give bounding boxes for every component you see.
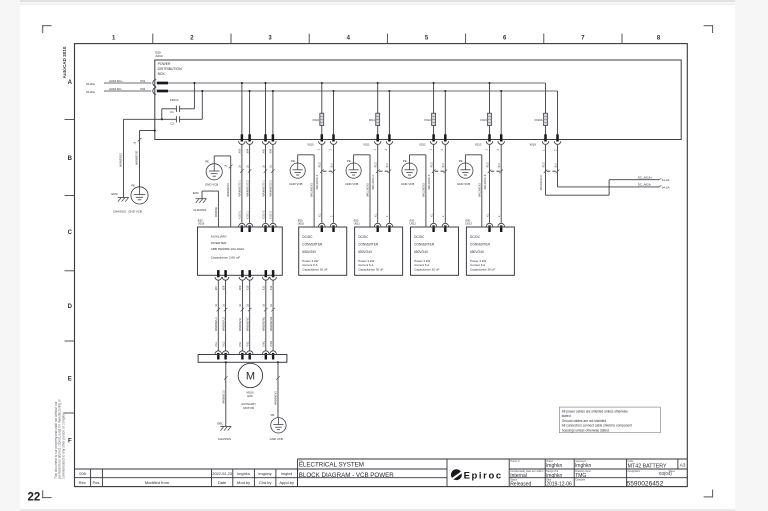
svg-text:D: D <box>68 304 73 310</box>
svg-text:16: 16 <box>222 303 225 306</box>
svg-text:WA13/8GND: WA13/8GND <box>478 183 481 197</box>
svg-text:650V/24V: 650V/24V <box>470 250 485 254</box>
svg-text:F: F <box>68 439 72 445</box>
svg-text:16: 16 <box>239 165 242 168</box>
svg-text:EMC: EMC <box>193 191 199 195</box>
svg-text:F016A: F016A <box>534 118 542 122</box>
svg-text:housings unless otherwise stat: housings unless otherwise stated. <box>562 428 610 432</box>
svg-text:X:W2: X:W2 <box>270 340 273 347</box>
svg-text:A010 DC-: A010 DC- <box>109 87 122 91</box>
svg-text:04-1/A: 04-1/A <box>662 178 670 182</box>
svg-text:Current 6 A: Current 6 A <box>302 263 317 267</box>
svg-text:Released: Released <box>510 482 531 488</box>
svg-text:WA12/8GND: WA12/8GND <box>422 183 425 197</box>
svg-text:X011: X011 <box>363 142 370 146</box>
svg-text:CONVERTER: CONVERTER <box>414 242 435 246</box>
svg-text:WA13/8/DC-6: WA13/8/DC-6 <box>484 174 487 189</box>
svg-text:DC/DC: DC/DC <box>302 235 313 239</box>
svg-text:CHASSIS: CHASSIS <box>218 437 231 441</box>
svg-text:CONVERTER: CONVERTER <box>302 242 323 246</box>
svg-text:X01: X01 <box>140 79 146 83</box>
svg-text:WA06/8E/DC-1: WA06/8E/DC-1 <box>262 180 265 197</box>
svg-text:AUXILIARY: AUXILIARY <box>211 235 227 239</box>
svg-text:Power 4 kW: Power 4 kW <box>358 259 374 263</box>
svg-text:Transf. fr.: Transf. fr. <box>510 460 520 463</box>
svg-text:X03: X03 <box>238 148 242 153</box>
svg-text:DC/DC: DC/DC <box>358 235 369 239</box>
svg-text:5590026452: 5590026452 <box>627 480 664 487</box>
svg-text:X11: X11 <box>262 285 266 290</box>
svg-text:WA08/8E/W1: WA08/8E/W1 <box>263 316 266 331</box>
svg-text:WA08/8E/1E: WA08/8E/1E <box>222 390 225 404</box>
svg-text:DC_A016-: DC_A016- <box>638 183 652 187</box>
svg-text:communicated to any other pers: communicated to any other person or comp… <box>62 412 66 479</box>
svg-text:CONVERTER: CONVERTER <box>358 242 379 246</box>
svg-text:ELECTRICAL SYSTEM: ELECTRICAL SYSTEM <box>299 462 364 469</box>
svg-text:16: 16 <box>262 165 265 168</box>
svg-text:2: 2 <box>442 215 445 217</box>
svg-text:lmghkn: lmghkn <box>237 471 250 476</box>
svg-text:X010: X010 <box>307 142 314 146</box>
svg-text:04-1/A: 04-1/A <box>662 185 670 189</box>
svg-text:U016: U016 <box>198 222 205 226</box>
svg-text:16: 16 <box>215 303 218 306</box>
svg-text:E50: E50 <box>248 394 253 398</box>
svg-text:Current 6 A: Current 6 A <box>470 263 485 267</box>
svg-text:22: 22 <box>28 492 41 504</box>
svg-text:X:V1: X:V1 <box>239 341 242 347</box>
svg-text:X08: X08 <box>221 285 225 290</box>
svg-text:lmghkn: lmghkn <box>546 463 562 469</box>
svg-text:X04: X04 <box>245 148 249 153</box>
svg-text:X:DC+1: X:DC+1 <box>239 210 242 219</box>
svg-text:X12: X12 <box>269 285 273 290</box>
svg-text:16: 16 <box>263 303 266 306</box>
svg-text:X:1: X:1 <box>430 213 433 217</box>
svg-text:F011: F011 <box>369 118 376 122</box>
svg-text:1: 1 <box>429 148 432 150</box>
svg-text:X:1: X:1 <box>375 213 378 217</box>
svg-text:WA10/8/DC-3: WA10/8/DC-3 <box>316 174 319 189</box>
svg-text:M: M <box>246 371 255 383</box>
svg-text:16: 16 <box>134 141 137 144</box>
svg-text:PE: PE <box>291 159 295 163</box>
svg-text:PE: PE <box>205 159 209 163</box>
svg-text:X:1: X:1 <box>486 213 489 217</box>
svg-text:MOTOR: MOTOR <box>243 406 254 410</box>
svg-text:C2: C2 <box>170 121 174 125</box>
svg-text:1: 1 <box>112 36 116 42</box>
svg-text:WA08/8E/U1: WA08/8E/U1 <box>215 317 218 331</box>
svg-text:ABB HES880-104-A02A: ABB HES880-104-A02A <box>211 247 245 251</box>
svg-text:GND VCB: GND VCB <box>128 210 142 214</box>
svg-text:BOX: BOX <box>158 72 166 76</box>
svg-text:WA06/8GND: WA06/8GND <box>135 151 138 166</box>
svg-text:RED: RED <box>319 162 322 167</box>
svg-text:lmgwny: lmgwny <box>259 471 272 476</box>
svg-text:E50: E50 <box>198 218 203 222</box>
svg-text:4: 4 <box>347 36 351 42</box>
svg-text:Compare: Compare <box>575 479 586 482</box>
svg-text:X013: X013 <box>475 142 482 146</box>
svg-text:3: 3 <box>268 36 272 42</box>
svg-text:WA08/8E/W2: WA08/8E/W2 <box>270 316 273 331</box>
svg-text:MT42 BATTERY: MT42 BATTERY <box>628 463 667 469</box>
svg-text:7: 7 <box>581 36 585 42</box>
svg-text:PE: PE <box>347 159 351 163</box>
svg-text:All connectors connect cable s: All connectors connect cable shield to c… <box>562 424 632 428</box>
svg-text:WA08/8E/V1: WA08/8E/V1 <box>239 317 242 331</box>
svg-text:5: 5 <box>425 36 429 42</box>
svg-text:1: 1 <box>374 148 377 150</box>
svg-text:F013: F013 <box>480 118 487 122</box>
svg-text:WA06/8GND: WA06/8GND <box>227 183 230 197</box>
svg-text:BLK: BLK <box>498 162 501 167</box>
svg-text:Power 4 kW: Power 4 kW <box>302 259 318 263</box>
svg-text:GND VCB: GND VCB <box>270 437 283 441</box>
svg-text:Capacitance 30 uF: Capacitance 30 uF <box>470 268 495 272</box>
svg-text:E50: E50 <box>298 218 303 222</box>
svg-text:stated.: stated. <box>562 414 572 418</box>
svg-text:1: 1 <box>485 148 488 150</box>
svg-text:PE: PE <box>271 413 275 417</box>
svg-text:X:U1: X:U1 <box>215 341 218 347</box>
svg-text:2019-12-06: 2019-12-06 <box>546 482 572 488</box>
svg-text:2: 2 <box>386 215 389 217</box>
svg-text:6: 6 <box>503 36 507 42</box>
svg-text:WA06/8E/DC-1: WA06/8E/DC-1 <box>239 180 242 197</box>
svg-text:PE: PE <box>459 159 463 163</box>
svg-text:Power 4 kW: Power 4 kW <box>470 259 486 263</box>
svg-text:GND VCB: GND VCB <box>289 182 302 186</box>
svg-text:RED: RED <box>486 162 489 167</box>
svg-text:2: 2 <box>554 149 557 151</box>
svg-text:WA08/8GND: WA08/8GND <box>275 391 278 405</box>
svg-text:EMC: EMC <box>217 422 223 426</box>
svg-text:Chd.by: Chd.by <box>259 480 272 485</box>
svg-text:CONVERTER: CONVERTER <box>470 242 491 246</box>
svg-text:X:DC+2: X:DC+2 <box>262 210 265 219</box>
svg-text:2: 2 <box>329 148 332 150</box>
svg-text:2: 2 <box>441 148 444 150</box>
svg-text:AutoCAD 2010: AutoCAD 2010 <box>62 46 67 78</box>
svg-text:Power 4 kW: Power 4 kW <box>414 259 430 263</box>
svg-text:2: 2 <box>498 215 501 217</box>
svg-text:lmghkn: lmghkn <box>575 463 591 469</box>
svg-text:WA06/8E/1E: WA06/8E/1E <box>119 153 122 168</box>
svg-text:INVERTER: INVERTER <box>211 241 227 245</box>
svg-text:X09: X09 <box>238 285 242 290</box>
svg-text:RED: RED <box>430 162 433 167</box>
svg-text:650V/24V: 650V/24V <box>358 250 373 254</box>
svg-text:X:U2: X:U2 <box>222 341 225 347</box>
svg-text:GND VCB: GND VCB <box>457 182 470 186</box>
svg-text:GND VCB: GND VCB <box>401 182 414 186</box>
svg-text:Mod.by: Mod.by <box>237 480 250 485</box>
svg-text:B: B <box>68 156 73 162</box>
svg-text:Capacitance 30 uF: Capacitance 30 uF <box>414 268 439 272</box>
svg-text:2: 2 <box>330 215 333 217</box>
svg-text:BLK: BLK <box>442 162 445 167</box>
svg-text:PE: PE <box>403 159 407 163</box>
svg-text:Modified from: Modified from <box>145 480 170 485</box>
svg-text:WA08/8E/U2: WA08/8E/U2 <box>222 317 225 331</box>
svg-text:16: 16 <box>270 303 273 306</box>
svg-text:16: 16 <box>239 303 242 306</box>
svg-text:DC/DC: DC/DC <box>414 235 425 239</box>
svg-text:WA10/8GND: WA10/8GND <box>311 183 314 197</box>
svg-text:WA06/8E/DC-2: WA06/8E/DC-2 <box>270 180 273 197</box>
svg-text:RED: RED <box>542 162 545 167</box>
svg-text:RED: RED <box>375 162 378 167</box>
svg-text:F010: F010 <box>313 118 320 122</box>
svg-text:BLOCK DIAGRAM - VCB POWER: BLOCK DIAGRAM - VCB POWER <box>299 472 394 479</box>
svg-text:2022-02-23: 2022-02-23 <box>212 471 232 476</box>
svg-text:Capacitance 30 uF: Capacitance 30 uF <box>358 268 383 272</box>
svg-text:Date: Date <box>218 480 227 485</box>
svg-text:Current 6 A: Current 6 A <box>358 263 373 267</box>
svg-text:01-8/A: 01-8/A <box>86 90 95 94</box>
svg-text:WA11/8GND: WA11/8GND <box>367 183 370 197</box>
svg-text:BLK: BLK <box>386 162 389 167</box>
svg-text:2: 2 <box>497 148 500 150</box>
svg-text:Appd.by: Appd.by <box>279 480 294 485</box>
svg-text:DC_A016+: DC_A016+ <box>638 175 653 179</box>
svg-text:E50: E50 <box>410 218 415 222</box>
svg-text:KF010: KF010 <box>170 98 179 102</box>
svg-text:Current 6 A: Current 6 A <box>414 263 429 267</box>
svg-text:X06: X06 <box>269 148 273 153</box>
svg-text:U012: U012 <box>410 222 417 226</box>
svg-text:WA11/8/DC-4: WA11/8/DC-4 <box>372 174 375 189</box>
svg-text:X05: X05 <box>261 148 265 153</box>
svg-text:GND VCB: GND VCB <box>205 182 218 186</box>
svg-text:16: 16 <box>224 164 227 167</box>
svg-text:Capacitance 30 uF: Capacitance 30 uF <box>302 268 327 272</box>
svg-text:16: 16 <box>246 165 249 168</box>
svg-text:16: 16 <box>247 303 250 306</box>
svg-text:WA12/8/DC-5: WA12/8/DC-5 <box>428 174 431 189</box>
svg-text:CHASSIS: CHASSIS <box>193 208 206 212</box>
svg-text:X07: X07 <box>214 285 218 290</box>
svg-text:X:DC-2: X:DC-2 <box>270 210 273 219</box>
svg-text:A: A <box>68 80 73 86</box>
svg-text:E: E <box>68 377 72 383</box>
svg-text:Rev.: Rev. <box>79 480 87 485</box>
svg-text:U011: U011 <box>354 222 361 226</box>
svg-text:X:W1: X:W1 <box>263 340 266 347</box>
svg-text:PE: PE <box>131 184 135 188</box>
svg-text:BLK: BLK <box>554 162 557 167</box>
svg-text:lmglml: lmglml <box>281 471 292 476</box>
svg-text:A010 DC+: A010 DC+ <box>109 79 123 83</box>
svg-text:2: 2 <box>385 148 388 150</box>
svg-text:Pos.: Pos. <box>92 480 100 485</box>
svg-text:2: 2 <box>190 36 194 42</box>
svg-text:Epiroc: Epiroc <box>464 470 503 481</box>
svg-text:X:1: X:1 <box>319 213 322 217</box>
svg-text:Designation: Designation <box>628 470 641 473</box>
svg-text:WA16/8/DC-8: WA16/8/DC-8 <box>540 175 543 190</box>
svg-text:U010: U010 <box>298 222 305 226</box>
svg-text:A010: A010 <box>155 54 163 58</box>
svg-text:EMC: EMC <box>112 192 118 196</box>
svg-text:X016: X016 <box>530 142 537 146</box>
svg-text:E50: E50 <box>465 218 470 222</box>
svg-text:WA06/8E: WA06/8E <box>215 207 218 217</box>
svg-text:Ground cables are not shielded: Ground cables are not shielded. <box>562 419 607 423</box>
svg-text:Capacitance 2.68 mF: Capacitance 2.68 mF <box>211 256 241 260</box>
svg-text:8: 8 <box>657 36 661 42</box>
svg-text:All power cables are shielded: All power cables are shielded unless oth… <box>562 409 628 413</box>
svg-text:C: C <box>68 230 73 236</box>
svg-text:BLK: BLK <box>330 162 333 167</box>
svg-text:005: 005 <box>79 471 86 476</box>
svg-text:X:V2: X:V2 <box>247 341 250 347</box>
svg-text:X012: X012 <box>419 142 426 146</box>
svg-text:1: 1 <box>318 148 321 150</box>
svg-text:650V/24V: 650V/24V <box>302 250 317 254</box>
svg-text:WA06/8E/DC-2: WA06/8E/DC-2 <box>246 180 249 197</box>
svg-text:E50: E50 <box>354 218 359 222</box>
svg-text:16: 16 <box>270 165 273 168</box>
svg-text:03(04): 03(04) <box>659 471 672 476</box>
svg-text:CHASSIS: CHASSIS <box>113 210 126 214</box>
svg-text:X02: X02 <box>140 87 146 91</box>
svg-text:GND VCB: GND VCB <box>345 182 358 186</box>
svg-text:C1: C1 <box>170 110 174 114</box>
svg-text:DISTRIBUTION: DISTRIBUTION <box>158 67 182 71</box>
svg-text:U013: U013 <box>465 222 472 226</box>
svg-text:POWER: POWER <box>158 62 171 66</box>
svg-text:1: 1 <box>542 149 545 151</box>
svg-text:A3: A3 <box>680 462 686 467</box>
svg-text:650V/24V: 650V/24V <box>414 250 429 254</box>
svg-text:01-8/A: 01-8/A <box>86 82 95 86</box>
svg-text:F012: F012 <box>424 118 431 122</box>
svg-text:WA08/8E/V2: WA08/8E/V2 <box>247 317 250 331</box>
svg-text:X:DC-1: X:DC-1 <box>246 210 249 219</box>
svg-text:DC/DC: DC/DC <box>470 235 481 239</box>
svg-text:X10: X10 <box>246 285 250 290</box>
